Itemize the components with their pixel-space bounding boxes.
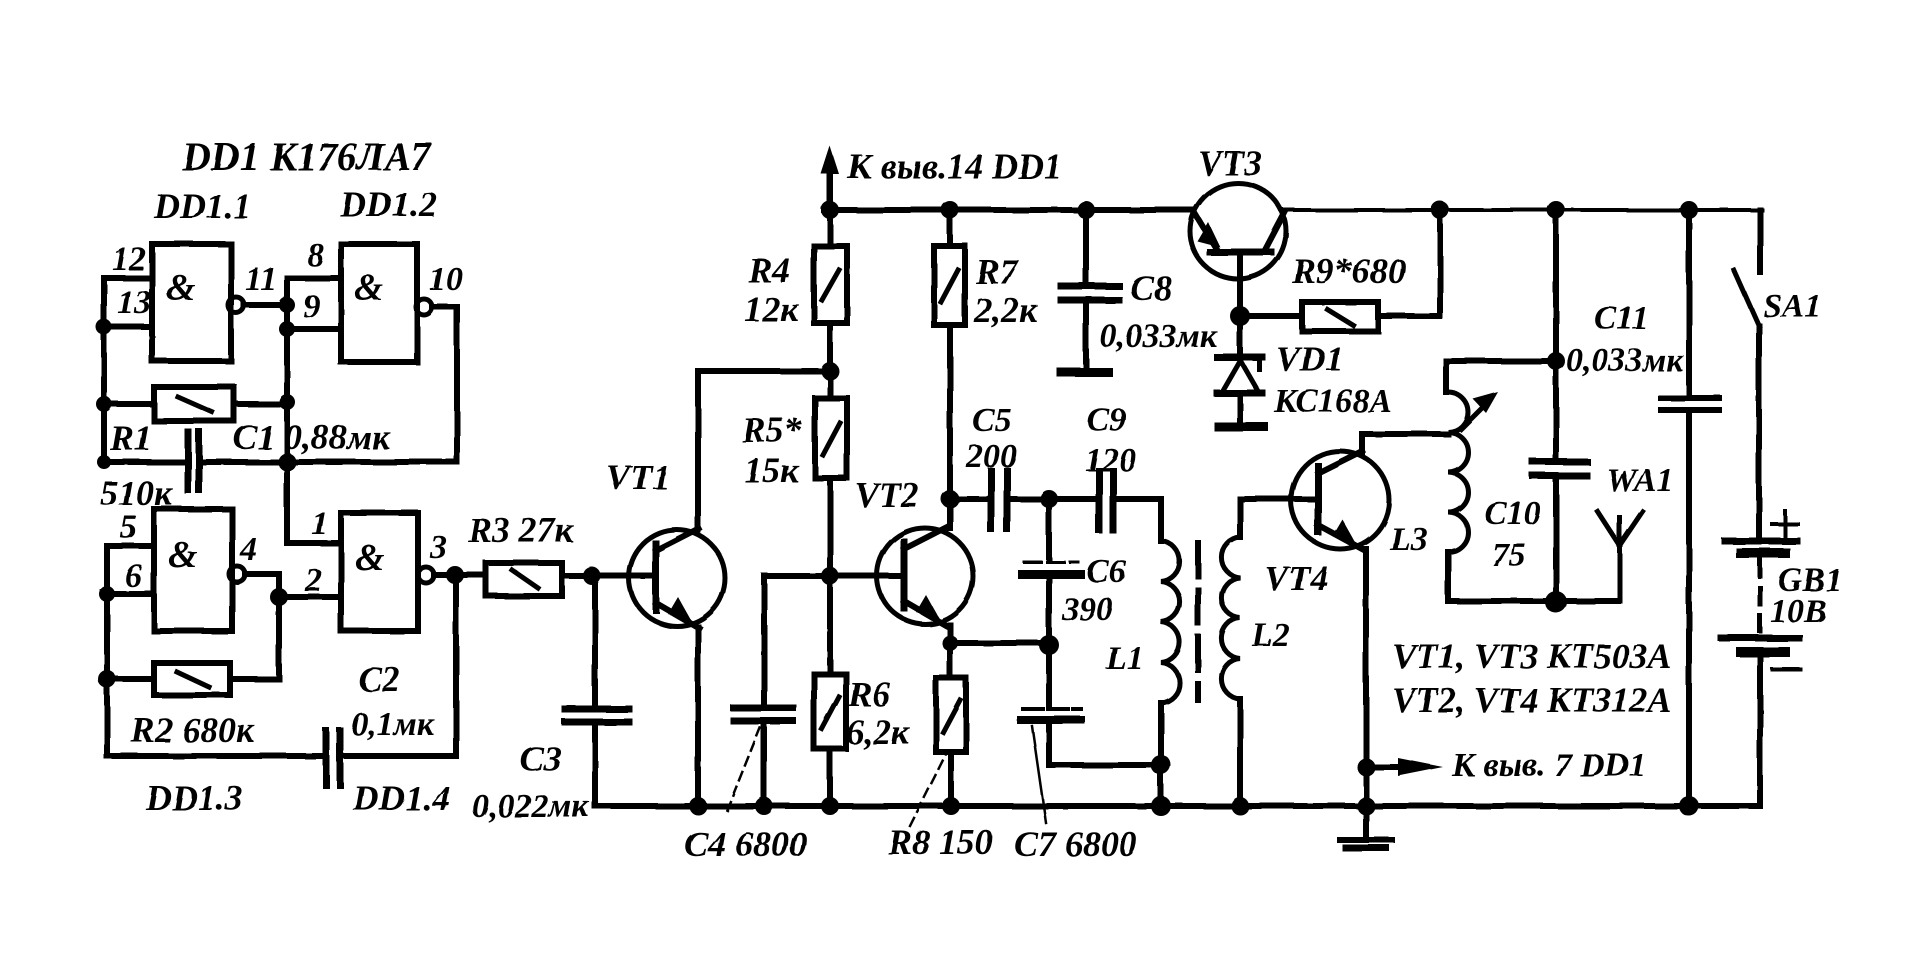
- capacitor C9 120: [1099, 471, 1113, 530]
- pin 13 wire: [104, 324, 152, 330]
- wire C8 top lead: [1083, 210, 1089, 282]
- svg-text:DD1.2: DD1.2: [339, 184, 437, 224]
- wire pin 9: [287, 326, 341, 332]
- wire R3 right lead to VT1 base: [562, 573, 654, 579]
- wire pin 3 output: [434, 572, 486, 578]
- wire pin 8: [287, 275, 341, 281]
- svg-text:R2 680к: R2 680к: [130, 710, 255, 750]
- wire: C11 branch from rail: [1686, 210, 1692, 394]
- svg-text:DD1 К176ЛА7: DD1 К176ЛА7: [181, 134, 433, 179]
- svg-text:R8 150: R8 150: [887, 822, 993, 862]
- wire: VT2 base net horizontal: [764, 573, 904, 579]
- svg-text:510к: 510к: [100, 473, 173, 513]
- svg-text:C7 6800: C7 6800: [1014, 824, 1137, 864]
- node: bus R8: [942, 797, 960, 815]
- svg-text:КС168А: КС168А: [1273, 383, 1392, 420]
- wire R9 left lead: [1240, 313, 1302, 319]
- svg-text:VT4: VT4: [1264, 558, 1328, 598]
- resistor R7 2,2k: [934, 246, 965, 325]
- node: VT2 emitter junction: [942, 635, 958, 651]
- wire: C7 lower lead to L1 bottom: [1049, 724, 1161, 765]
- wire: C3 upper lead: [592, 576, 598, 706]
- node: output11 junction: [279, 297, 295, 313]
- wire R8 bottom lead: [948, 752, 954, 804]
- wire: left vertical tying pins 12,13 to R1 and C1: [101, 278, 107, 462]
- svg-text:R6: R6: [847, 674, 890, 714]
- svg-text:10: 10: [429, 261, 463, 298]
- wire: L3 top horizontal: [1446, 358, 1556, 364]
- wire: C2 right to pin3 vertical: [344, 753, 456, 759]
- svg-text:WA1: WA1: [1606, 462, 1673, 499]
- svg-text:VT1, VT3 КТ503А: VT1, VT3 КТ503А: [1392, 636, 1671, 676]
- svg-text:С9: С9: [1087, 402, 1127, 439]
- capacitor C5 200: [991, 471, 1007, 529]
- wire VT4 collector to L3 tap: [1362, 434, 1448, 452]
- svg-text:3: 3: [429, 529, 447, 566]
- resistor R4 12k: [814, 246, 847, 323]
- wire VT4 emitter down to bus: [1363, 549, 1369, 804]
- svg-text:VD1: VD1: [1276, 339, 1344, 379]
- wire: L1 bottom lead to bus: [1158, 703, 1164, 804]
- node: R1 left junction: [96, 396, 112, 412]
- svg-text:R5*: R5*: [741, 410, 803, 450]
- tuning arrow on L3: [1461, 392, 1498, 429]
- resistor R6 6,2k: [814, 674, 846, 749]
- svg-text:DD1.3: DD1.3: [145, 778, 243, 818]
- svg-text:VT1: VT1: [606, 457, 670, 497]
- leader line C4 label: [727, 728, 760, 810]
- node: pin7 wire junction: [1357, 758, 1375, 776]
- svg-text:L2: L2: [1251, 617, 1290, 654]
- inversion bubble output DD1.4: [418, 567, 434, 583]
- wire: C6 upper lead: [1046, 499, 1052, 558]
- wire: L3 bottom lead: [1448, 552, 1618, 601]
- svg-text:С6: С6: [1086, 553, 1126, 590]
- leader line C7 label: [1032, 726, 1046, 823]
- node: C6/C7 emitter junction: [1039, 635, 1059, 655]
- wire: supply rail right segment: [1285, 208, 1762, 212]
- inversion bubble output DD1.3: [229, 566, 245, 582]
- capacitor C4 6800: [734, 708, 793, 721]
- node: pin 3 junction: [446, 566, 464, 584]
- transistor VT3 KT503A: [1190, 183, 1286, 279]
- svg-text:C2: C2: [358, 659, 400, 699]
- switch SA1: [1734, 270, 1759, 326]
- inductor L1: [1161, 541, 1180, 703]
- pin 12 wire: [104, 275, 152, 281]
- svg-text:SA1: SA1: [1763, 288, 1822, 325]
- svg-text:6,2к: 6,2к: [846, 712, 910, 752]
- resistor R9* 680: [1302, 302, 1378, 331]
- svg-text:С11: С11: [1594, 300, 1649, 337]
- svg-text:DD1.4: DD1.4: [352, 778, 450, 818]
- wire: C10 branch from rail: [1553, 210, 1559, 459]
- node: pin 2 junction: [270, 588, 288, 606]
- svg-text:C4 6800: C4 6800: [684, 824, 807, 864]
- logic gate DD1.1 (K176LA7 NAND element): [152, 244, 231, 361]
- svg-text:R4: R4: [747, 250, 790, 290]
- wire: pin3 node down to C2: [453, 575, 459, 756]
- wire: C4 lower lead to bus: [761, 724, 767, 804]
- capacitor C6 390: [1022, 562, 1080, 574]
- power arrow to pin 14 DD1: [821, 146, 839, 210]
- svg-text:R1: R1: [109, 418, 152, 458]
- svg-text:2,2к: 2,2к: [973, 290, 1038, 330]
- svg-text:13: 13: [117, 284, 151, 321]
- capacitor C7 6800: [1021, 709, 1081, 720]
- node: R9/VD1 junction: [1230, 306, 1250, 326]
- svg-text:5: 5: [120, 509, 137, 546]
- wire pin 11 output: [244, 302, 287, 308]
- wire R6 bottom lead: [827, 749, 833, 804]
- svg-text:2: 2: [304, 562, 322, 599]
- node: rail C11 junction: [1680, 201, 1698, 219]
- wire VT2 collector up to R7: [947, 325, 953, 528]
- node: bus L1: [1151, 796, 1171, 816]
- wire: L3 top lead: [1443, 361, 1449, 392]
- node: C1 left junction: [97, 455, 111, 469]
- plus sign: [1772, 511, 1798, 537]
- wire R6 top lead: [827, 576, 833, 674]
- logic gate DD1.4: [341, 513, 418, 631]
- wire: switch to battery: [1756, 326, 1762, 538]
- inversion bubble output DD1.1: [228, 297, 244, 313]
- ground bar below VD1: [1219, 423, 1264, 432]
- node: C3 tap junction: [583, 567, 601, 585]
- svg-text:15к: 15к: [744, 450, 799, 490]
- svg-text:R7: R7: [975, 252, 1020, 292]
- wire: battery negative lead to bus: [1757, 657, 1763, 806]
- wire R2 right lead: [230, 676, 279, 682]
- wire: C1 horizontal net: [104, 459, 184, 465]
- wire: bottom net DD1.3 to C2: [107, 753, 322, 759]
- node: rail R4 junction: [821, 201, 839, 219]
- svg-text:VT3: VT3: [1198, 143, 1262, 183]
- node: pin13 junction: [96, 319, 112, 335]
- wire VT1 collector to R4/R5 node: [698, 368, 830, 374]
- wire pin 6: [107, 591, 154, 597]
- wire: output 4 to pin 2 vertical: [245, 574, 279, 679]
- svg-text:C1 0,88мк: C1 0,88мк: [233, 417, 391, 457]
- node: C6 top junction: [1040, 490, 1058, 508]
- node: bus R6: [821, 797, 839, 815]
- wire: feedback from pin10 down to C1: [454, 307, 460, 462]
- node: R2 left junction: [98, 670, 116, 688]
- transformer core: [1195, 543, 1201, 700]
- wire: C6 lower lead: [1046, 578, 1052, 705]
- node: pin 9 junction: [279, 321, 295, 337]
- wire VT1 emitter down to bus: [695, 627, 701, 804]
- node: C1/pin1 junction: [278, 453, 296, 471]
- zener diode VD1 KS168A: [1217, 357, 1262, 423]
- wire R1 right lead: [234, 401, 287, 407]
- wire R9 right lead up to rail: [1378, 210, 1440, 316]
- wire to pin 7 DD1 with arrow: [1366, 758, 1443, 776]
- wire: C5 left lead from VT2 collector: [950, 496, 987, 502]
- capacitor C1 0,88uF: [188, 432, 199, 490]
- inversion bubble output DD1.2: [416, 299, 432, 315]
- svg-text:11: 11: [245, 261, 277, 298]
- svg-text:&: &: [355, 537, 385, 579]
- svg-text:0,033мк: 0,033мк: [1566, 342, 1684, 379]
- wire: C4 upper lead vertical: [761, 576, 767, 705]
- logic gate DD1.2: [341, 244, 417, 362]
- capacitor C2 0,1uF: [326, 731, 340, 785]
- wire R4 bottom lead: [827, 323, 833, 371]
- wire R5 top lead: [827, 371, 833, 398]
- node: C5 tap junction: [941, 490, 959, 508]
- wire: rail corner to switch: [1757, 210, 1763, 272]
- svg-text:К выв.14 DD1: К выв.14 DD1: [846, 146, 1062, 186]
- logic gate DD1.3: [154, 509, 232, 631]
- wire: C5 to C9: [1011, 496, 1095, 502]
- wire pin 5: [107, 543, 154, 549]
- svg-text:75: 75: [1492, 537, 1526, 574]
- svg-text:120: 120: [1085, 442, 1136, 479]
- transistor VT4 KT312A: [1291, 451, 1389, 550]
- svg-text:0,022мк: 0,022мк: [472, 788, 590, 825]
- node: R1 right junction: [279, 394, 295, 410]
- svg-text:C3: C3: [520, 739, 562, 779]
- svg-text:4: 4: [239, 531, 257, 568]
- battery internal dashed link: [1758, 560, 1763, 631]
- svg-text:0,033мк: 0,033мк: [1100, 318, 1218, 355]
- resistor R3 27k: [486, 563, 562, 596]
- node: C10 bottom junction: [1545, 591, 1567, 613]
- wire: vertical net pin8/pin9/R1/C1/pin1: [284, 278, 290, 543]
- node: bus C4: [755, 797, 773, 815]
- svg-text:9: 9: [303, 288, 320, 325]
- svg-text:VT2, VT4 КТ312А: VT2, VT4 КТ312А: [1392, 680, 1671, 720]
- wire: C11 bottom lead to bus: [1686, 413, 1692, 805]
- svg-text:200: 200: [965, 438, 1017, 475]
- svg-text:R9*680: R9*680: [1291, 251, 1406, 291]
- svg-text:10В: 10В: [1770, 593, 1827, 630]
- battery GB1 10V cell 1: [1725, 541, 1797, 553]
- resistor R5* 15k: [815, 398, 847, 478]
- svg-text:R3 27к: R3 27к: [467, 510, 574, 550]
- wire: L2 top lead to VT4 base: [1240, 499, 1316, 537]
- wire VT3 base lead down: [1237, 253, 1243, 352]
- svg-text:0,1мк: 0,1мк: [351, 706, 435, 743]
- svg-text:1: 1: [311, 505, 328, 542]
- node: bus VT4 emitter: [1357, 797, 1375, 815]
- leader line R8 label: [910, 752, 947, 826]
- wire VT1 collector up: [695, 371, 701, 530]
- wire pin 1: [287, 540, 341, 546]
- capacitor C11 0,033uF: [1661, 398, 1719, 410]
- resistor R8 150: [936, 678, 966, 752]
- wire VT2 emitter down to R8: [947, 625, 953, 678]
- node: rail C8 junction: [1077, 201, 1095, 219]
- node: rail R9 junction: [1431, 201, 1449, 219]
- node: L3 top junction: [1547, 352, 1565, 370]
- svg-text:8: 8: [307, 237, 324, 274]
- svg-text:С10: С10: [1484, 495, 1541, 532]
- antenna WA1: [1598, 512, 1643, 601]
- transistor VT2 KT312A: [877, 527, 973, 626]
- wire: L2 bottom lead to bus: [1237, 699, 1243, 804]
- node: rail R7 junction: [941, 201, 959, 219]
- svg-text:С5: С5: [972, 402, 1012, 439]
- svg-text:&: &: [354, 267, 384, 309]
- capacitor C3 0,022uF: [565, 709, 629, 722]
- wire pin 10 output: [432, 304, 457, 310]
- resistor R1 510k: [154, 387, 234, 421]
- wire: C9 right to L1 top: [1117, 499, 1161, 541]
- svg-text:12: 12: [112, 241, 146, 278]
- wire R4 top lead: [827, 210, 833, 246]
- wire pin 2: [279, 594, 341, 600]
- battery GB1 cell 2: [1721, 638, 1799, 652]
- wire R7 top lead: [947, 210, 953, 246]
- svg-text:&: &: [166, 267, 196, 309]
- svg-text:390: 390: [1061, 591, 1113, 628]
- node: bus VT1 emitter: [689, 797, 707, 815]
- svg-text:L1: L1: [1105, 640, 1144, 677]
- svg-text:6: 6: [125, 558, 142, 595]
- inductor L2: [1221, 537, 1240, 699]
- node: bus L2: [1231, 797, 1249, 815]
- wire: common bottom bus: [595, 803, 1760, 809]
- svg-text:DD1.1: DD1.1: [153, 186, 251, 226]
- wire R1 left lead: [104, 401, 154, 407]
- svg-text:С8: С8: [1130, 268, 1172, 308]
- wire: VT2 emitter to C6/C7 node: [950, 640, 1046, 646]
- svg-text:VT2: VT2: [855, 475, 919, 515]
- wire: left vertical tying pins 5,6 to R2 and C2 net: [104, 546, 110, 756]
- wire: C3 lower lead to common bus: [592, 725, 598, 804]
- node: bus C11: [1679, 796, 1699, 816]
- transistor VT1 KT503A: [629, 529, 725, 628]
- ground symbol VT4 emitter: [1340, 804, 1392, 848]
- wire C8 bottom lead: [1083, 303, 1089, 367]
- node: pin 6 junction: [99, 586, 115, 602]
- svg-text:L3: L3: [1389, 521, 1428, 558]
- wire: supply rail left segment: [824, 207, 1192, 213]
- wire R2 left lead: [107, 676, 154, 682]
- wire: C1 right to pin10 feedback: [203, 459, 457, 465]
- capacitor C8 0,033uF: [1061, 286, 1119, 300]
- svg-text:К выв. 7 DD1: К выв. 7 DD1: [1451, 747, 1646, 784]
- wire R5 bottom lead to VT2 base node: [827, 478, 833, 576]
- wire: C10 bottom lead: [1553, 480, 1559, 602]
- resistor R2 680k: [154, 663, 230, 695]
- node: L1 bottom junction: [1151, 755, 1171, 775]
- node: R4/R5 junction: [821, 362, 839, 380]
- inductor L3: [1448, 392, 1468, 552]
- svg-text:&: &: [168, 534, 198, 576]
- ground bar below C8: [1061, 368, 1108, 377]
- node: rail C10 branch junction: [1547, 201, 1565, 219]
- node: VT2 base junction: [821, 567, 839, 585]
- svg-text:12к: 12к: [744, 289, 799, 329]
- capacitor C10 75: [1533, 462, 1587, 476]
- minus sign: [1772, 667, 1800, 671]
